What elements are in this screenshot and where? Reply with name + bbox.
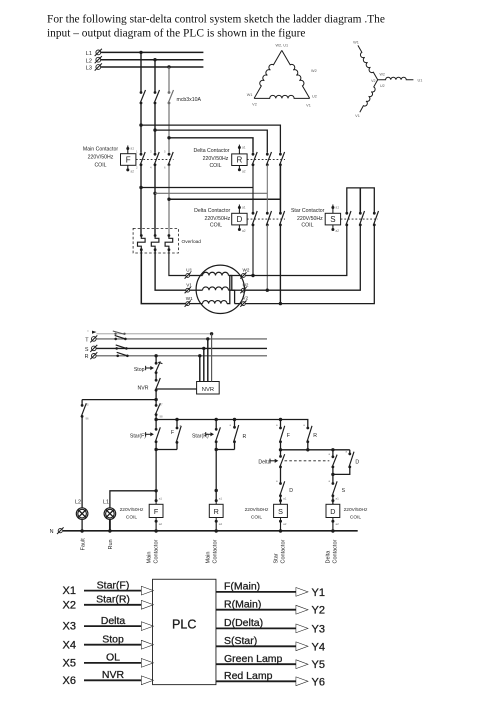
svg-text:a2: a2 — [283, 522, 287, 526]
PLC output Y1 F(Main) — [216, 591, 297, 593]
contactor R main contact 2 — [266, 153, 269, 156]
mechanical link S — [341, 218, 378, 220]
node delta aux join — [331, 473, 334, 476]
node rail3 c — [331, 448, 334, 451]
svg-text:D(Delta): D(Delta) — [224, 617, 263, 629]
svg-text:a1: a1 — [283, 496, 287, 500]
svg-text:Main: Main — [206, 552, 212, 564]
NVR relay box — [197, 382, 220, 395]
svg-text:a2: a2 — [159, 522, 163, 526]
wire branch F down — [155, 450, 157, 501]
svg-text:Fault: Fault — [81, 538, 87, 551]
wire D pole2 riser — [266, 225, 268, 290]
svg-text:S(Star): S(Star) — [224, 635, 257, 647]
svg-text:mcb3x10A: mcb3x10A — [177, 97, 202, 103]
wire R pole1 down — [252, 165, 254, 213]
node rail3 a — [279, 448, 282, 451]
node starR join — [215, 448, 218, 451]
svg-text:S: S — [330, 215, 335, 224]
svg-text:X2: X2 — [63, 599, 76, 611]
svg-text:97: 97 — [160, 403, 164, 407]
wire L2 — [101, 59, 203, 61]
node L2 tap — [153, 58, 156, 61]
svg-text:Stop: Stop — [134, 367, 145, 373]
node lamp tie — [154, 489, 157, 492]
node crossover C — [167, 136, 170, 139]
node crossover B — [153, 128, 156, 131]
wire star bridge middle — [359, 188, 361, 213]
svg-text:a2: a2 — [336, 522, 340, 526]
svg-text:V2: V2 — [371, 79, 375, 83]
node NVR riser R — [198, 354, 201, 357]
wire W2 to S pole1 — [246, 225, 347, 276]
coil R terminals — [238, 146, 241, 149]
wire neutral rail — [63, 530, 358, 532]
wire line M — [97, 333, 212, 335]
svg-text:Y6: Y6 — [312, 676, 325, 688]
svg-text:W2, U1: W2, U1 — [275, 44, 288, 48]
wire L1 — [101, 51, 203, 53]
svg-text:220V/50Hz: 220V/50Hz — [88, 154, 114, 160]
contact Delta aux 1 — [332, 450, 334, 457]
svg-text:COIL: COIL — [350, 514, 362, 520]
wire R pole3 down — [279, 165, 281, 213]
motor terminal W1 — [186, 302, 190, 306]
coil D terminals — [238, 206, 241, 209]
svg-text:a2: a2 — [219, 522, 223, 526]
svg-text:R: R — [214, 507, 219, 516]
svg-text:X4: X4 — [63, 639, 76, 651]
svg-text:Contactor: Contactor — [213, 539, 219, 563]
svg-text:Main Contactor: Main Contactor — [83, 146, 118, 152]
wire to motor W1 — [141, 250, 185, 304]
overload relay box — [133, 228, 178, 253]
circuit breaker mcb pole 2 — [154, 91, 157, 94]
wire NVR riser S — [203, 348, 205, 381]
svg-text:X3: X3 — [63, 621, 76, 633]
svg-text:L2: L2 — [75, 499, 81, 505]
node L1 tap — [139, 51, 142, 54]
node F interlock top — [279, 418, 282, 421]
switch line M — [113, 331, 125, 334]
mechanical link Delta — [285, 460, 330, 462]
wire to S coil — [280, 496, 282, 505]
mechanical link D — [247, 218, 285, 220]
svg-text:V2: V2 — [243, 296, 249, 301]
node rail D — [331, 529, 334, 532]
coil S terminals — [331, 206, 334, 209]
svg-text:U1: U1 — [418, 78, 423, 82]
PLC output Y6 Red Lamp — [216, 680, 297, 682]
svg-text:a1: a1 — [242, 206, 246, 210]
svg-text:220V/50Hz: 220V/50Hz — [297, 216, 323, 222]
contactor D main contact 3 — [279, 212, 282, 215]
svg-text:Contactor: Contactor — [154, 539, 160, 563]
node starR top — [215, 418, 218, 421]
svg-text:L3: L3 — [86, 66, 92, 72]
wire to NVR box — [156, 388, 197, 390]
node V2-D3 — [279, 302, 282, 305]
switch line S — [115, 347, 118, 350]
svg-text:For the following star-delta c: For the following star-delta control sys… — [47, 14, 385, 26]
wire F pole3 down — [168, 165, 170, 236]
node NVR riser S — [202, 347, 205, 350]
overload heater element 3 — [168, 234, 171, 237]
PLC output Y2 R(Main) — [216, 609, 297, 611]
svg-text:220V/50Hz: 220V/50Hz — [120, 507, 144, 513]
node starF join — [154, 448, 157, 451]
motor terminal U1 — [186, 274, 190, 278]
svg-text:Contactor: Contactor — [281, 539, 287, 563]
wire line T — [97, 338, 268, 340]
wire stop to nvr contact — [155, 373, 157, 381]
wire top rail — [82, 399, 156, 401]
wire star bridge — [347, 188, 375, 213]
contact OL fault branch — [81, 404, 84, 407]
svg-text:96: 96 — [86, 417, 90, 421]
contact D aux parallel — [349, 450, 351, 454]
svg-text:Green Lamp: Green Lamp — [224, 653, 283, 665]
svg-text:Star(R): Star(R) — [96, 594, 130, 606]
wire left rail upper — [81, 400, 83, 406]
wire merge H1 — [141, 187, 253, 189]
contact OL run branch — [155, 404, 158, 407]
ladder coil R — [215, 499, 218, 502]
ladder coil S — [279, 499, 282, 502]
wire to S interlock — [332, 474, 334, 483]
svg-text:input – output diagram of the: input – output diagram of the PLC is sho… — [47, 28, 305, 40]
node rail R — [215, 529, 218, 532]
wire to motor U1 — [169, 250, 186, 276]
wire NVR riser T — [207, 339, 209, 382]
svg-text:a1: a1 — [336, 206, 340, 210]
node rail L1 — [108, 529, 111, 532]
ladder coil F — [155, 499, 158, 502]
svg-text:F: F — [154, 507, 159, 516]
wire nvr contact to rail — [155, 390, 157, 405]
wire lamp L2 to rail — [81, 519, 83, 531]
svg-text:a1: a1 — [219, 496, 223, 500]
wire lamp L1 tie — [110, 491, 156, 509]
svg-text:Y4: Y4 — [312, 641, 325, 653]
wire feed to rail2 — [155, 415, 157, 420]
node rail3 b — [306, 448, 309, 451]
svg-text:COIL: COIL — [251, 514, 263, 520]
svg-text:Delta Contactor: Delta Contactor — [193, 148, 229, 154]
svg-text:Star Contactor: Star Contactor — [291, 208, 325, 214]
star winding arm W1 — [355, 45, 377, 81]
motor terminal V1 — [186, 288, 190, 292]
node feed tap — [154, 354, 157, 357]
svg-text:Y5: Y5 — [312, 659, 325, 671]
svg-text:COIL: COIL — [210, 223, 222, 229]
wire F pole2 down — [154, 165, 156, 236]
svg-text:D: D — [237, 215, 243, 224]
svg-text:NVR: NVR — [102, 669, 125, 681]
wire starF join — [155, 442, 157, 450]
svg-text:F: F — [171, 430, 174, 436]
wire delta aux join — [332, 467, 334, 475]
node crossover A — [139, 123, 142, 126]
svg-text:Y2: Y2 — [312, 605, 325, 617]
wire to D coil — [332, 496, 334, 505]
svg-text:PLC: PLC — [172, 618, 196, 632]
svg-text:Delta: Delta — [101, 615, 126, 627]
svg-text:COIL: COIL — [301, 223, 313, 229]
svg-text:R: R — [243, 434, 247, 440]
motor winding V — [190, 289, 203, 291]
wire L1 drop — [140, 52, 142, 92]
svg-text:Run: Run — [108, 539, 114, 549]
svg-text:L2: L2 — [86, 58, 92, 64]
wire L2 drop — [154, 60, 156, 93]
switch line R — [116, 355, 119, 358]
svg-text:U2: U2 — [380, 84, 385, 88]
svg-text:a2: a2 — [242, 229, 246, 233]
svg-text:Delta: Delta — [326, 550, 332, 564]
contact R interlock — [307, 426, 309, 429]
contactor R main contact 1 — [252, 153, 255, 156]
svg-text:V1: V1 — [306, 104, 311, 108]
svg-text:R: R — [85, 354, 89, 360]
wire L3 drop — [168, 67, 170, 93]
node L3 tap — [167, 65, 170, 68]
svg-text:W1: W1 — [247, 93, 253, 97]
star winding arm U1 — [378, 77, 414, 80]
svg-text:a1: a1 — [131, 147, 135, 151]
svg-text:220V/50Hz: 220V/50Hz — [344, 507, 368, 513]
node rail S — [279, 529, 282, 532]
PLC output Y4 S(Star) — [216, 645, 297, 647]
svg-text:U2: U2 — [312, 95, 317, 99]
node top rail junction — [154, 398, 157, 401]
node merge H1 — [139, 186, 142, 189]
motor winding U exit — [232, 289, 242, 291]
svg-text:95: 95 — [86, 403, 90, 407]
wire NVR riser R — [199, 356, 201, 382]
wire branch R down — [215, 450, 217, 501]
wire starR join — [215, 442, 217, 450]
PLC output Y5 Green Lamp — [216, 663, 297, 665]
svg-text:Main: Main — [147, 552, 153, 564]
wire line R — [97, 355, 268, 357]
contactor F main contact 2 — [154, 153, 157, 156]
svg-text:R: R — [237, 156, 243, 165]
svg-text:a1: a1 — [336, 496, 340, 500]
mechanical link F — [136, 158, 174, 160]
svg-text:W1: W1 — [353, 41, 359, 45]
svg-text:OL: OL — [106, 652, 120, 664]
contact F interlock — [280, 420, 282, 429]
switch line T — [114, 338, 117, 341]
svg-text:a1: a1 — [242, 146, 246, 150]
svg-text:COIL: COIL — [209, 163, 221, 169]
circuit breaker mcb pole 3 — [168, 91, 171, 94]
contactor D main contact 1 — [252, 212, 255, 215]
node rail L2 — [80, 529, 83, 532]
wire U2 to S pole2 — [246, 225, 361, 290]
op coil S box — [325, 213, 340, 225]
ladder coil D — [331, 499, 334, 502]
svg-text:D: D — [355, 459, 359, 465]
svg-text:S: S — [278, 507, 283, 516]
contactor F main contact 3 — [168, 153, 171, 156]
node NVR riser T — [206, 337, 209, 340]
wire lamp L1 to rail — [109, 519, 111, 531]
svg-text:W2: W2 — [380, 73, 385, 77]
svg-text:Contactor: Contactor — [333, 539, 339, 563]
wire merge H2 — [155, 192, 267, 194]
svg-text:S: S — [85, 347, 89, 353]
svg-text:Star: Star — [274, 553, 280, 563]
motor terminal V2 — [242, 302, 246, 306]
svg-text:Stop: Stop — [102, 634, 124, 646]
svg-text:a2: a2 — [242, 169, 246, 173]
svg-text:S: S — [342, 488, 346, 494]
svg-text:R: R — [313, 433, 317, 439]
PLC output Y3 D(Delta) — [216, 627, 297, 629]
svg-text:D: D — [330, 507, 335, 516]
svg-text:a2: a2 — [336, 229, 340, 233]
svg-text:220V/50Hz: 220V/50Hz — [205, 216, 231, 222]
wire R pole2 down — [266, 165, 268, 213]
delta winding side V (bottom) — [254, 95, 310, 98]
circuit breaker mcb pole 1 — [140, 91, 143, 94]
wire crossover A (L1 to R pole3) — [141, 125, 280, 153]
wire rail2 — [156, 420, 308, 428]
lamp L1 Run — [104, 508, 116, 520]
node W2-D1 — [251, 274, 254, 277]
wire NVR riser M — [211, 334, 213, 382]
wire D pole1 riser — [252, 225, 254, 276]
svg-text:W2: W2 — [311, 69, 317, 73]
node rail F — [154, 529, 157, 532]
node merge H2 — [153, 192, 156, 195]
svg-text:COIL: COIL — [126, 514, 138, 520]
svg-text:COIL: COIL — [94, 162, 106, 168]
node NVR riser M — [210, 332, 213, 335]
node merge H3 — [167, 198, 170, 201]
svg-text:Star(F): Star(F) — [97, 579, 130, 591]
svg-text:Red Lamp: Red Lamp — [224, 670, 273, 682]
svg-text:F: F — [287, 433, 290, 439]
svg-text:220V/50Hz: 220V/50Hz — [245, 507, 269, 513]
svg-text:L1: L1 — [86, 51, 92, 57]
op coil R box — [232, 154, 247, 166]
motor body — [196, 265, 244, 313]
wire phase1 to F contact — [140, 103, 142, 153]
wire left rail to lamp L2 — [81, 416, 83, 508]
svg-text:V1: V1 — [186, 282, 192, 287]
svg-text:R(Main): R(Main) — [224, 598, 261, 610]
contactor D main contact 2 — [266, 212, 269, 215]
wire phase2 to F contact — [154, 103, 156, 153]
svg-text:L1: L1 — [103, 499, 109, 505]
svg-text:V2: V2 — [252, 103, 257, 107]
svg-text:Delta Contactor: Delta Contactor — [194, 208, 230, 214]
motor winding V exit — [235, 303, 242, 305]
svg-text:Y1: Y1 — [312, 587, 325, 599]
svg-text:F(Main): F(Main) — [224, 581, 260, 593]
svg-text:98: 98 — [160, 415, 164, 419]
overload heater element 1 — [140, 234, 143, 237]
wire crossover C (L3 to R pole1) — [169, 138, 253, 153]
motor winding W — [190, 303, 203, 305]
delta winding side W (left) — [251, 49, 281, 99]
coil F terminals — [126, 147, 129, 150]
svg-text:Delta: Delta — [258, 459, 270, 465]
svg-text:U2: U2 — [243, 282, 249, 287]
wire delta to D contact — [280, 467, 282, 484]
wire F pole1 down — [140, 165, 142, 236]
svg-text:W2: W2 — [243, 268, 250, 273]
wire line S — [97, 347, 268, 349]
wire crossover B (L2 to R pole2) — [155, 130, 267, 153]
svg-text:220V/50Hz: 220V/50Hz — [203, 156, 229, 162]
wire L3 — [101, 66, 203, 68]
svg-text:N: N — [50, 529, 54, 535]
motor terminal W2 — [242, 274, 246, 278]
mechanical link R — [247, 158, 285, 160]
svg-text:V1: V1 — [355, 114, 360, 118]
svg-text:X5: X5 — [63, 658, 76, 670]
lamp L2 Fault — [76, 508, 88, 520]
wire V2 to S pole3 — [246, 225, 375, 304]
svg-text:Y3: Y3 — [312, 623, 325, 635]
svg-text:W1: W1 — [186, 296, 193, 301]
svg-text:a1: a1 — [159, 496, 163, 500]
contactor F main contact 1 — [140, 153, 143, 156]
node rail2 left — [154, 418, 157, 421]
wire phase3 to F contact — [168, 103, 170, 153]
motor winding U — [190, 275, 203, 277]
svg-text:NVR: NVR — [138, 386, 149, 392]
node U2-D2 — [266, 289, 269, 292]
star winding arm V1 — [360, 80, 380, 114]
overload heater element 2 — [154, 234, 157, 237]
delta winding side U (right) — [282, 49, 313, 99]
wire merge H3 — [169, 198, 280, 200]
motor terminal U2 — [242, 288, 246, 292]
contactor S main contact 3 — [373, 212, 376, 215]
wire to motor V1 — [155, 250, 186, 291]
wire feed drop — [155, 356, 157, 363]
op coil D box — [232, 213, 247, 225]
contactor S main contact 1 — [345, 212, 348, 215]
svg-text:F: F — [126, 155, 131, 164]
contact F holding — [175, 418, 178, 421]
svg-text:D: D — [289, 488, 293, 494]
node branch R mid — [215, 489, 218, 492]
wire D pole3 riser — [279, 225, 281, 304]
svg-text:Overload: Overload — [182, 239, 202, 245]
svg-text:X1: X1 — [63, 585, 76, 597]
op coil F box — [121, 154, 136, 166]
svg-text:U1: U1 — [186, 268, 192, 273]
PLC box — [153, 580, 216, 685]
wire rail3 — [280, 442, 282, 450]
svg-text:Star(F): Star(F) — [130, 434, 146, 440]
svg-text:NVR: NVR — [202, 387, 214, 393]
contactor R main contact 3 — [279, 153, 282, 156]
svg-text:a2: a2 — [131, 170, 135, 174]
contactor S main contact 2 — [359, 212, 362, 215]
svg-text:X6: X6 — [63, 675, 76, 687]
contact R holding — [233, 418, 236, 421]
